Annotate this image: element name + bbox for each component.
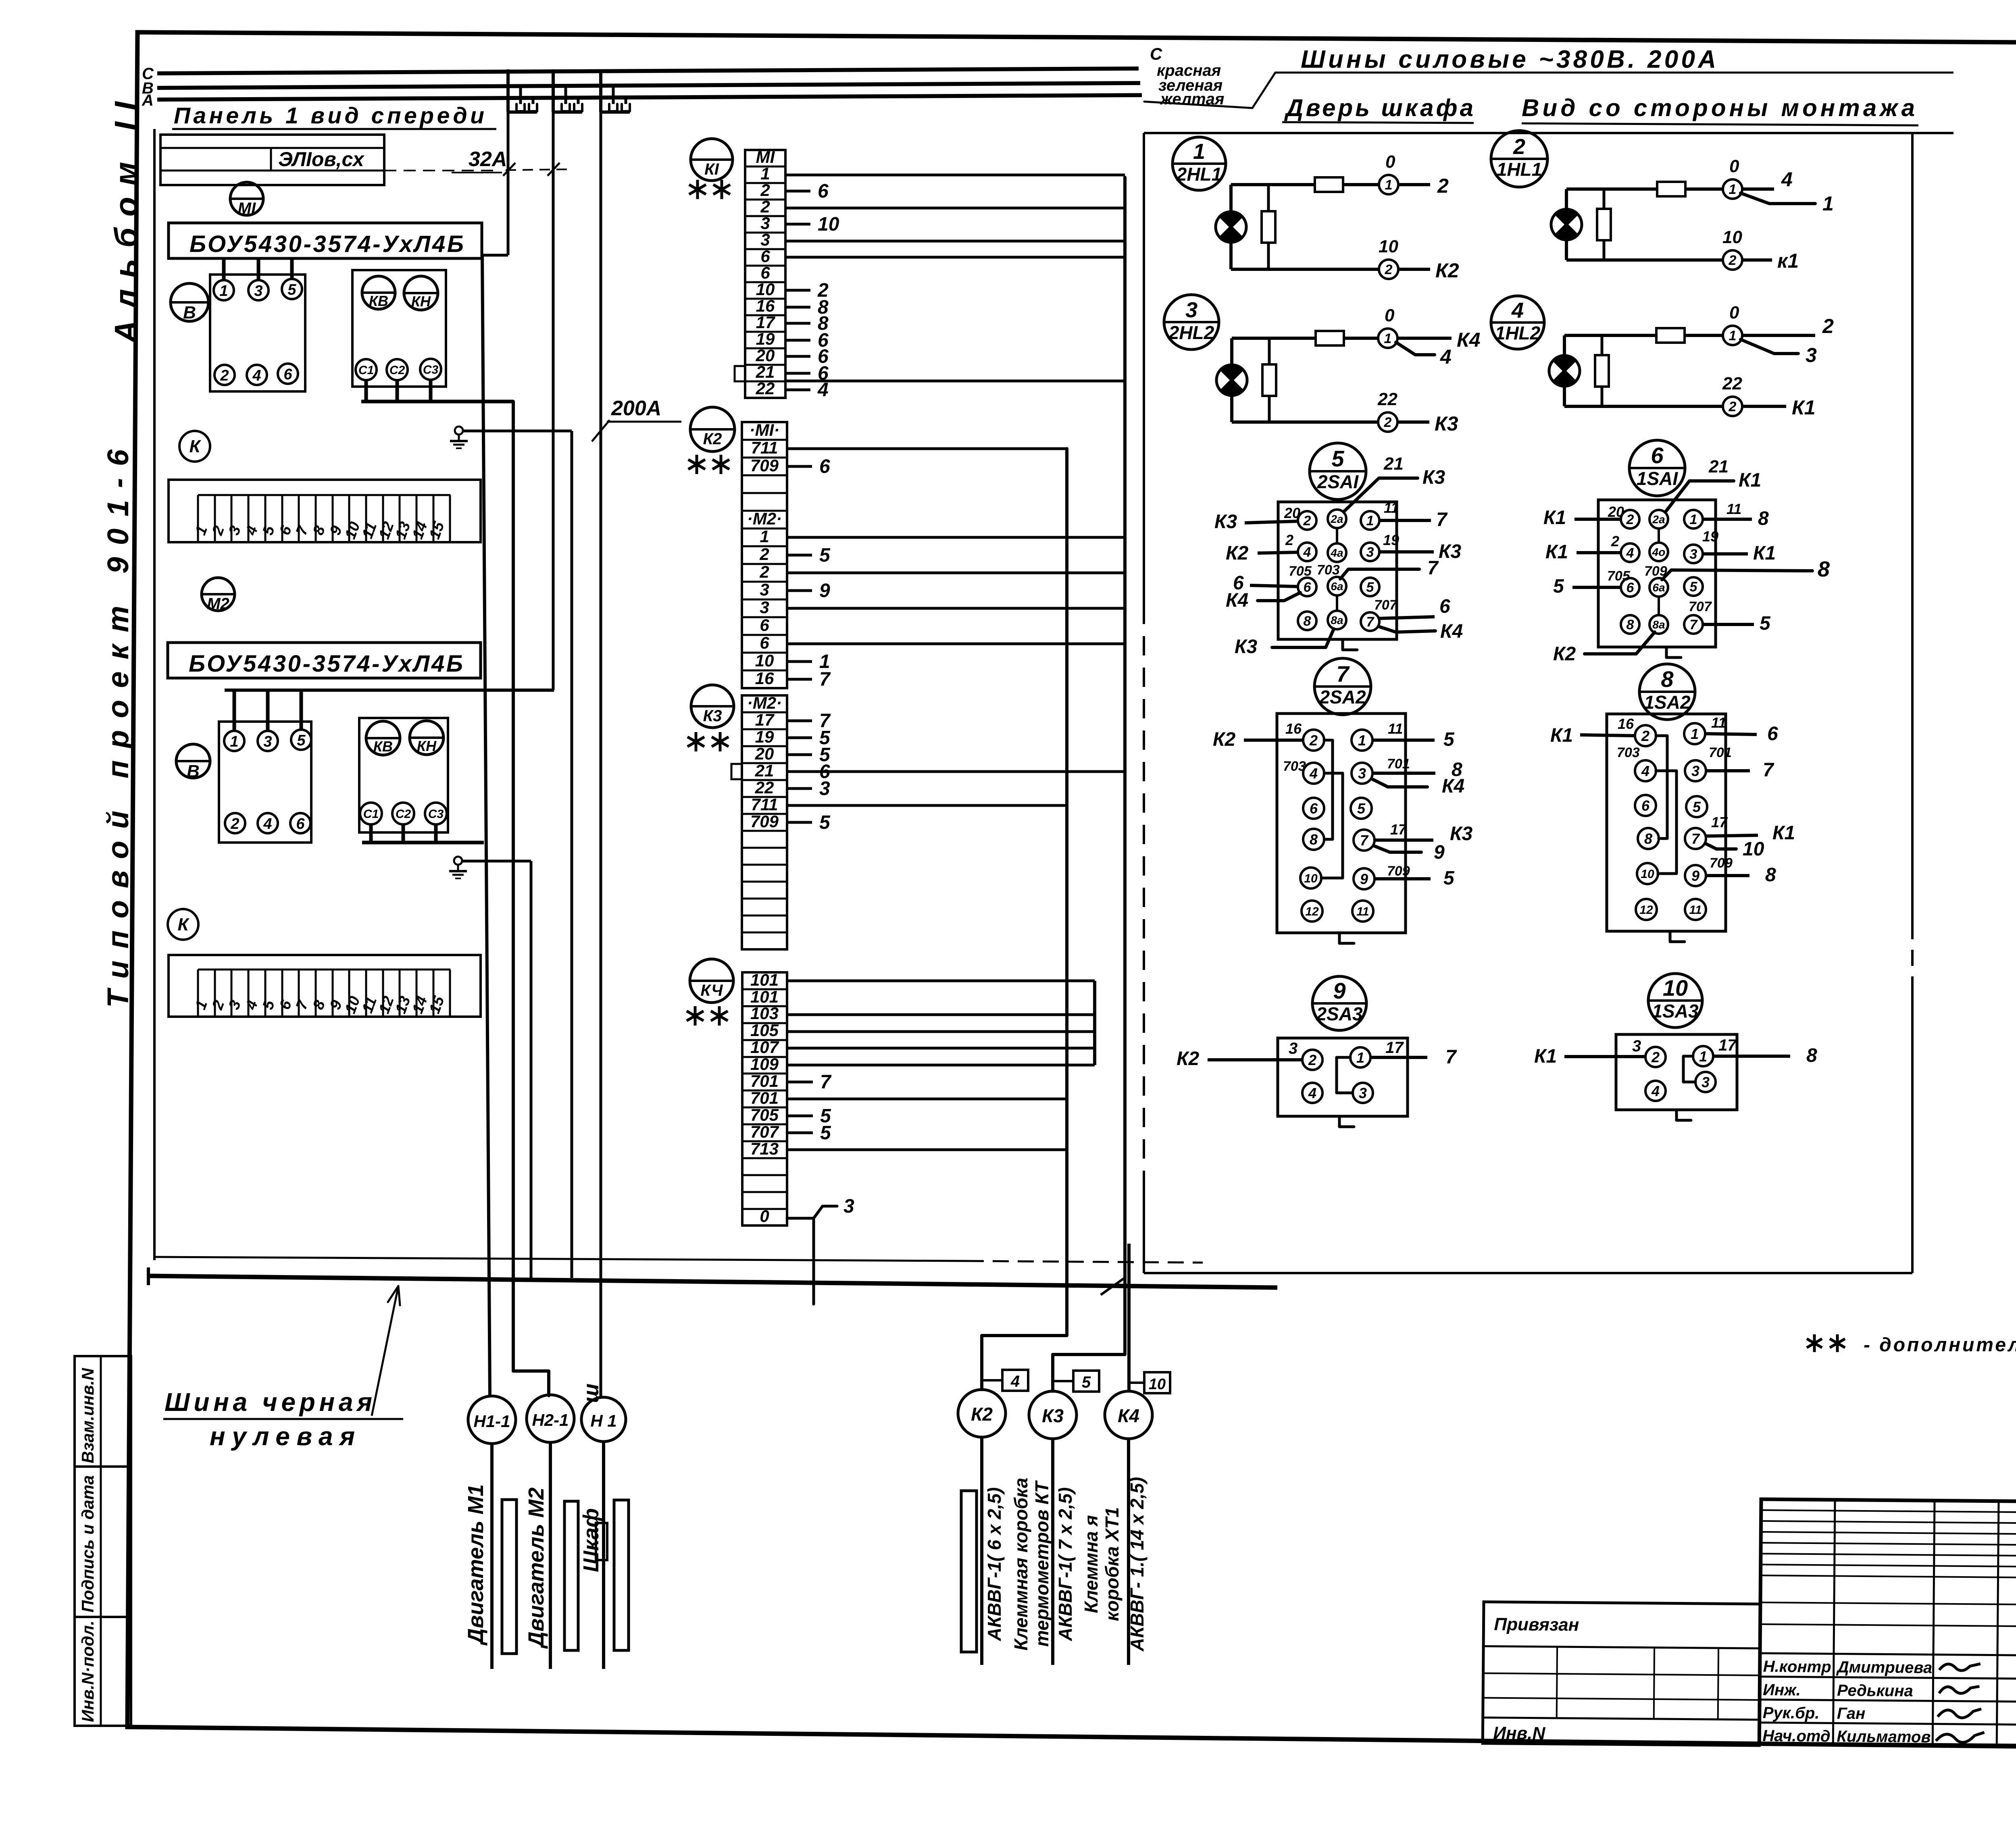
svg-text:711: 711 — [751, 795, 778, 814]
svg-text:6: 6 — [819, 456, 830, 477]
svg-text:0: 0 — [1385, 306, 1395, 325]
door area left edge — [1143, 133, 1145, 605]
strip M2b stub wire label 5 — [787, 753, 812, 756]
svg-text:703: 703 — [1283, 759, 1306, 774]
relay box KV KN 1 — [352, 270, 446, 387]
svg-text:5: 5 — [1760, 613, 1771, 634]
svg-text:10: 10 — [756, 280, 775, 299]
left sub-table Привязан — [1483, 1602, 1760, 1746]
lamp left wire — [1565, 189, 1568, 260]
switch block 6 box — [1598, 500, 1716, 647]
svg-text:4а: 4а — [1330, 547, 1343, 559]
svg-text:3: 3 — [1702, 1074, 1710, 1090]
pin 3 — [1353, 1083, 1373, 1103]
ground stub block10 — [1677, 1110, 1691, 1120]
panel outline left edge — [153, 129, 156, 1260]
pin 1 — [1361, 511, 1379, 530]
svg-text:5: 5 — [1690, 579, 1698, 595]
strip M2b stub wire label 7 — [787, 720, 812, 722]
svg-text:2: 2 — [1513, 135, 1525, 159]
svg-text:200А: 200А — [611, 397, 661, 420]
relay box KV KN 2 — [359, 718, 448, 832]
svg-text:701: 701 — [1387, 756, 1410, 772]
pin 10 — [1637, 863, 1658, 884]
svg-text:4: 4 — [1781, 168, 1793, 191]
svg-text:1HL2: 1HL2 — [1495, 322, 1541, 343]
lamp top wire — [1231, 183, 1315, 186]
svg-text:12: 12 — [1305, 905, 1319, 918]
circle K panel 1 — [179, 431, 210, 462]
cable H2-1 wire down — [549, 1442, 552, 1669]
jumper wire panel2 C-terminals — [362, 841, 484, 845]
pin 8a — [1649, 615, 1668, 634]
strip M1 stub wire label 8 — [785, 306, 810, 309]
svg-text:2: 2 — [1729, 253, 1737, 268]
wire 8 from pin9 — [1706, 874, 1749, 877]
lamp bottom wire — [1231, 268, 1379, 271]
svg-text:К1: К1 — [1792, 396, 1816, 419]
indicator lamp circuit 1/2HL1 id circle — [1173, 137, 1226, 190]
svg-text:1: 1 — [219, 283, 228, 300]
bus tap main wire — [599, 69, 602, 112]
terminal 5 — [291, 730, 311, 750]
bus colour callout lines — [1144, 73, 1275, 108]
svg-text:105: 105 — [750, 1021, 779, 1040]
lamp bottom wire — [1564, 405, 1723, 408]
svg-text:К3: К3 — [1042, 1405, 1064, 1426]
svg-text:2: 2 — [1385, 262, 1393, 277]
svg-text:1: 1 — [1691, 726, 1699, 742]
cable circle H1 — [581, 1397, 626, 1442]
svg-text:9: 9 — [1333, 978, 1345, 1003]
coil KV — [362, 276, 395, 309]
parallel resistor — [1601, 335, 1604, 355]
jumper wire panel1 C-terminals — [361, 400, 513, 404]
svg-text:К1: К1 — [1772, 822, 1795, 844]
svg-text:2: 2 — [1308, 1052, 1316, 1068]
svg-text:8: 8 — [1627, 617, 1634, 632]
junction vertical of 10x wires — [1093, 981, 1096, 1065]
terminal1 out wire 4 — [1742, 187, 1774, 191]
pin 2 — [1645, 1047, 1666, 1067]
terminal 1 — [214, 280, 234, 300]
svg-text:К2: К2 — [1213, 729, 1236, 750]
wire M1-3b to wire bus — [785, 240, 1125, 243]
svg-text:3: 3 — [1185, 298, 1198, 322]
bus tap stub from B — [564, 85, 567, 104]
wire M1-2b to wire bus — [785, 207, 1125, 210]
svg-text:109: 109 — [750, 1055, 779, 1074]
asterisks strip4 — [694, 1006, 697, 1026]
svg-text:1: 1 — [1729, 328, 1737, 343]
terminal2 out wire к1 — [1742, 258, 1772, 262]
circle B on panel 1 — [171, 283, 208, 321]
svg-text:А: А — [142, 92, 154, 109]
svg-text:6: 6 — [1304, 580, 1312, 595]
pin 10 — [1300, 868, 1321, 888]
svg-text:1: 1 — [1729, 182, 1737, 197]
lamp top wire — [1564, 334, 1656, 337]
svg-text:6а: 6а — [1652, 581, 1665, 594]
svg-text:709: 709 — [1710, 855, 1733, 871]
terminal1 out wire 1 — [1741, 193, 1815, 204]
wire 10x to junction — [788, 1013, 1095, 1016]
indicator lamp circuit 2/1HL1 id circle — [1491, 131, 1547, 187]
feeder stubs to terminals panel2 — [233, 690, 236, 730]
strip M2a stub wire label 5 — [787, 554, 812, 557]
svg-text:10: 10 — [1379, 237, 1398, 256]
cable K2 wire down — [980, 1437, 983, 1665]
svg-text:2: 2 — [760, 181, 770, 200]
pin 8a — [1328, 611, 1346, 629]
pin 9 — [1354, 868, 1375, 889]
svg-text:9: 9 — [1691, 868, 1699, 884]
wire K3 from pin3 — [1379, 550, 1434, 553]
svg-text:2HL2: 2HL2 — [1168, 322, 1214, 343]
motor circle M1 — [230, 182, 263, 215]
starter box BOU5430-3574-UHL4B no.2 — [168, 643, 481, 678]
svg-text:Рук.бр.: Рук.бр. — [1763, 1704, 1820, 1722]
wire M1-22 to wire bus — [785, 380, 1125, 383]
svg-text:3: 3 — [760, 580, 769, 599]
strip XT1 stub wire label 7 — [788, 1081, 813, 1084]
wire earth bundle down to zero bus — [571, 431, 573, 1278]
svg-text:3: 3 — [1632, 1037, 1641, 1055]
svg-text:5: 5 — [1331, 446, 1344, 471]
svg-text:11: 11 — [1711, 714, 1726, 731]
svg-text:К2: К2 — [703, 430, 722, 448]
svg-text:3: 3 — [263, 733, 272, 750]
terminal 3 — [258, 731, 278, 751]
svg-text:К1: К1 — [1543, 507, 1566, 528]
lamp left wire — [1229, 185, 1233, 269]
svg-text:9: 9 — [1434, 842, 1445, 863]
parallel resistor — [1267, 185, 1270, 211]
svg-text:6: 6 — [1651, 443, 1664, 468]
bus tap stub from B — [612, 85, 615, 104]
terminal1 out wire К4 — [1397, 337, 1452, 340]
svg-text:Подпись и дата: Подпись и дата — [78, 1475, 97, 1612]
svg-text:Панель 1 вид спереди: Панель 1 вид спереди — [174, 103, 484, 129]
svg-text:Двигатель М1: Двигатель М1 — [464, 1484, 488, 1646]
pin 7 — [1684, 615, 1703, 634]
strip M1 stub wire label 6 — [785, 355, 810, 358]
wire M1-1 to wire bus — [785, 174, 1125, 177]
motor circle M2 — [202, 578, 235, 611]
cable id circle K1 with strip M1 — [691, 139, 733, 181]
terminal 4 — [247, 365, 267, 385]
selector switch id circle 6/1SA1 — [1629, 440, 1685, 496]
cable H1 wire down — [602, 1442, 605, 1669]
svg-text:701: 701 — [1709, 745, 1732, 760]
wire 7 from pin3 — [1706, 769, 1750, 772]
earth wire panel 2 — [462, 860, 531, 863]
ballast resistor — [1316, 331, 1344, 345]
svg-text:707: 707 — [1374, 597, 1398, 613]
strip M2b stub wire label 5 — [787, 821, 812, 824]
svg-text:20: 20 — [1284, 505, 1300, 521]
cable K3 wire down — [1051, 1439, 1054, 1665]
svg-text:Вид со стороны монтажа: Вид со стороны монтажа — [1522, 94, 1915, 121]
svg-text:С: С — [1150, 44, 1162, 63]
svg-text:К4: К4 — [1442, 776, 1464, 797]
pin 12 — [1636, 899, 1657, 920]
svg-text:Инв.N: Инв.N — [1493, 1723, 1545, 1744]
svg-text:3: 3 — [1690, 547, 1697, 562]
lamp — [1216, 212, 1246, 242]
svg-text:2HL1: 2HL1 — [1176, 164, 1222, 185]
svg-text:Кильматов: Кильматов — [1837, 1727, 1931, 1746]
pin 1 — [1684, 723, 1705, 744]
wire 7 from pin1 — [1370, 1056, 1427, 1059]
svg-text:1SAI: 1SAI — [1637, 468, 1678, 489]
svg-text:22: 22 — [756, 379, 775, 398]
svg-text:2: 2 — [220, 367, 229, 384]
svg-text:703: 703 — [1317, 562, 1340, 578]
pin 3 — [1352, 763, 1372, 784]
earth rod panel 2 — [454, 857, 462, 865]
bus tap main wire — [506, 69, 510, 112]
svg-text:705: 705 — [750, 1105, 779, 1124]
strip M2b stub wire label 6 — [787, 770, 812, 773]
strip M2b stub wire label 5 — [787, 737, 812, 739]
switch block 10 box — [1616, 1034, 1737, 1110]
svg-text:К3: К3 — [703, 707, 722, 725]
svg-text:21: 21 — [1383, 454, 1404, 474]
pin 4 — [1298, 543, 1316, 561]
svg-text:5: 5 — [1693, 799, 1701, 815]
wire 21 K1 from pin2a — [1666, 481, 1734, 511]
revision table columns — [1833, 1500, 1835, 1744]
wire K3 from pin7 — [1375, 838, 1433, 842]
strip M1 stub wire label 6 — [785, 190, 810, 193]
x-mark on feed1 — [503, 163, 515, 176]
cable circle K4 — [1105, 1391, 1152, 1439]
pin 5 — [1361, 578, 1379, 596]
marker box 4 — [982, 1379, 1002, 1382]
svg-text:1: 1 — [1358, 732, 1366, 749]
link pin1-pin3 — [1337, 1057, 1353, 1093]
circle B on panel 2 — [176, 744, 210, 778]
terminal 4 — [258, 813, 278, 833]
svg-text:12: 12 — [1639, 903, 1653, 917]
cable marker rect K2 — [961, 1491, 977, 1652]
svg-text:В: В — [183, 303, 196, 322]
wire 5 from pin7 — [1703, 623, 1754, 626]
svg-text:КВ: КВ — [369, 293, 388, 309]
cable K4 wire down — [1127, 1439, 1130, 1665]
wire drops to jumper 2 — [369, 824, 373, 843]
link 2a-4a — [1658, 528, 1660, 543]
svg-text:4: 4 — [1626, 545, 1634, 561]
svg-text:21: 21 — [755, 761, 774, 780]
terminal strip panel2 1..15 — [169, 955, 481, 1017]
svg-text:5: 5 — [1553, 576, 1564, 597]
pin 6 — [1298, 578, 1316, 596]
tab on strip M1 row 21 — [735, 366, 745, 381]
svg-text:2: 2 — [230, 816, 239, 832]
terminal C3 2 — [425, 803, 447, 824]
svg-text:К2: К2 — [971, 1404, 993, 1425]
svg-text:709: 709 — [750, 812, 779, 831]
terminal1 out wire 4 — [1396, 342, 1435, 355]
wire 200A feed down to cabinet cable H1 — [600, 112, 602, 1397]
svg-text:К1: К1 — [1753, 543, 1776, 564]
x-mark on feed2 — [548, 163, 560, 176]
terminal2 out wire К2 — [1398, 268, 1430, 271]
pin 8 — [1621, 615, 1639, 634]
svg-text:К3: К3 — [1214, 511, 1237, 533]
wire 5 from pin9 — [1375, 877, 1431, 880]
title block outer box — [1759, 1499, 2016, 1750]
svg-text:К4: К4 — [1226, 590, 1248, 611]
bus tap hooks and joint — [609, 104, 617, 111]
svg-text:Инв.N·подл.: Инв.N·подл. — [78, 1621, 97, 1722]
svg-text:2: 2 — [1437, 175, 1449, 197]
svg-text:К4: К4 — [1440, 621, 1463, 642]
terminal C2 — [387, 359, 408, 380]
svg-text:2: 2 — [759, 562, 769, 581]
svg-text:6а: 6а — [1331, 580, 1343, 593]
pin 9 — [1685, 865, 1706, 886]
pin 2 — [1298, 511, 1316, 530]
zero bus black — [148, 1276, 1277, 1288]
strip XT1 stub wire label 5 — [788, 1115, 813, 1117]
svg-text:ш: ш — [579, 1384, 603, 1403]
bus tap stub from A — [625, 98, 627, 104]
wire from feed1 into starter 1 — [482, 254, 508, 257]
svg-text:Н1-1: Н1-1 — [473, 1412, 510, 1431]
svg-text:19: 19 — [1702, 528, 1718, 545]
svg-text:713: 713 — [750, 1139, 779, 1158]
cable circle K2 — [958, 1390, 1006, 1437]
pin 6 — [1621, 578, 1639, 597]
svg-text:4: 4 — [263, 816, 272, 832]
strip M1 stub wire label 4 — [785, 389, 810, 391]
svg-text:4: 4 — [817, 379, 829, 401]
wire 9 from pin7 — [1374, 846, 1421, 852]
pin 11 — [1352, 901, 1373, 922]
terminal strip panel1 1..15 — [169, 480, 481, 542]
terminal1 out wire 3 — [1741, 339, 1798, 354]
wire 5 to pin6 — [1572, 586, 1621, 589]
terminal strip XT1 rows — [742, 972, 787, 1225]
terminal 3 — [248, 280, 269, 300]
svg-text:705: 705 — [1289, 564, 1312, 579]
svg-text:19: 19 — [1383, 532, 1399, 548]
asterisks strip1 — [696, 180, 699, 199]
wire bus to cable K3 — [1053, 177, 1125, 1391]
wire 8 from pin1 — [1703, 518, 1752, 521]
svg-text:705: 705 — [1607, 568, 1631, 584]
svg-text:22: 22 — [755, 778, 774, 797]
wire 701b to K2 wire — [788, 1098, 1067, 1101]
dashed extension of label box line — [384, 170, 496, 171]
terminal 5 — [282, 279, 302, 299]
wire M2-2b to wire bus — [787, 572, 1125, 574]
svg-text:3: 3 — [1366, 545, 1374, 560]
pin 7 — [1354, 830, 1375, 851]
terminal C2 2 — [392, 803, 414, 824]
terminal2 out wire К3 — [1397, 420, 1429, 424]
pin 2a — [1328, 510, 1346, 528]
svg-text:5: 5 — [820, 1122, 831, 1144]
door area right edge — [1911, 133, 1914, 923]
svg-text:К2: К2 — [1435, 259, 1459, 282]
pin 8 — [1638, 828, 1659, 849]
svg-text:К4: К4 — [1118, 1405, 1139, 1426]
wire 10x to junction — [788, 1064, 1095, 1067]
svg-text:1: 1 — [1384, 331, 1392, 346]
ground stub block8 — [1670, 931, 1685, 942]
strip M2a stub wire label 9 — [787, 589, 812, 592]
svg-text:Нач.отд: Нач.отд — [1762, 1727, 1831, 1745]
svg-text:К2: К2 — [1553, 643, 1576, 665]
svg-text:·М2·: ·М2· — [747, 509, 782, 528]
pin 3 — [1685, 760, 1706, 781]
wire 10 from pin7 — [1705, 843, 1736, 849]
svg-text:711: 711 — [751, 438, 778, 457]
svg-text:3: 3 — [1358, 765, 1366, 782]
wire K2 to pin4 — [1258, 552, 1298, 553]
svg-text:5: 5 — [1443, 868, 1455, 889]
ground stub block7 — [1339, 933, 1354, 943]
svg-text:5: 5 — [819, 545, 831, 566]
svg-text:5: 5 — [1082, 1373, 1091, 1391]
svg-text:2: 2 — [1303, 513, 1311, 528]
cable circle K3 — [1029, 1391, 1077, 1439]
svg-text:С2: С2 — [389, 364, 405, 377]
svg-text:10: 10 — [1663, 975, 1688, 1001]
svg-text:6: 6 — [818, 181, 829, 202]
svg-text:2: 2 — [1822, 315, 1834, 337]
svg-text:·МI·: ·МI· — [750, 420, 780, 439]
terminal 2 — [1379, 260, 1398, 279]
strip M2a stub wire label 6 — [787, 465, 812, 468]
svg-text:9: 9 — [819, 580, 830, 601]
selector switch id circle 10/1SA3 — [1648, 974, 1702, 1028]
terminal 1 — [1723, 179, 1742, 199]
svg-text:ЭЛIов,сх: ЭЛIов,сх — [278, 148, 365, 171]
svg-text:4: 4 — [1651, 1083, 1660, 1099]
wire 6 from pin1 — [1705, 734, 1757, 734]
svg-text:К1: К1 — [1545, 541, 1568, 563]
svg-text:3: 3 — [760, 598, 769, 617]
terminal2 out wire К1 — [1742, 405, 1786, 408]
svg-text:19: 19 — [755, 727, 774, 746]
coil KN — [404, 276, 438, 310]
wire M2-6b to wire bus — [787, 643, 1125, 645]
svg-text:10: 10 — [1722, 227, 1742, 247]
pin 4 — [1645, 1081, 1666, 1101]
cable marker rect Sh2 — [614, 1500, 629, 1650]
pin 3 — [1361, 543, 1379, 561]
svg-text:Взам.инв.N: Взам.инв.N — [78, 1367, 97, 1463]
wire M1-6a to wire bus — [785, 256, 1125, 259]
svg-text:Н2-1: Н2-1 — [532, 1411, 569, 1429]
svg-text:2а: 2а — [1652, 513, 1665, 526]
wire 21 K3 from pin2a — [1344, 478, 1418, 511]
svg-text:20: 20 — [1608, 504, 1624, 520]
signature squiggles — [1939, 1663, 1981, 1671]
svg-text:6: 6 — [1767, 723, 1778, 745]
svg-text:20: 20 — [755, 744, 774, 763]
svg-text:1: 1 — [1356, 1049, 1364, 1066]
svg-text:Клеммна я: Клеммна я — [1081, 1515, 1102, 1613]
link 6a-8a — [1658, 597, 1660, 615]
terminal1 out wire 2 — [1398, 183, 1430, 186]
svg-text:8: 8 — [1765, 864, 1776, 886]
